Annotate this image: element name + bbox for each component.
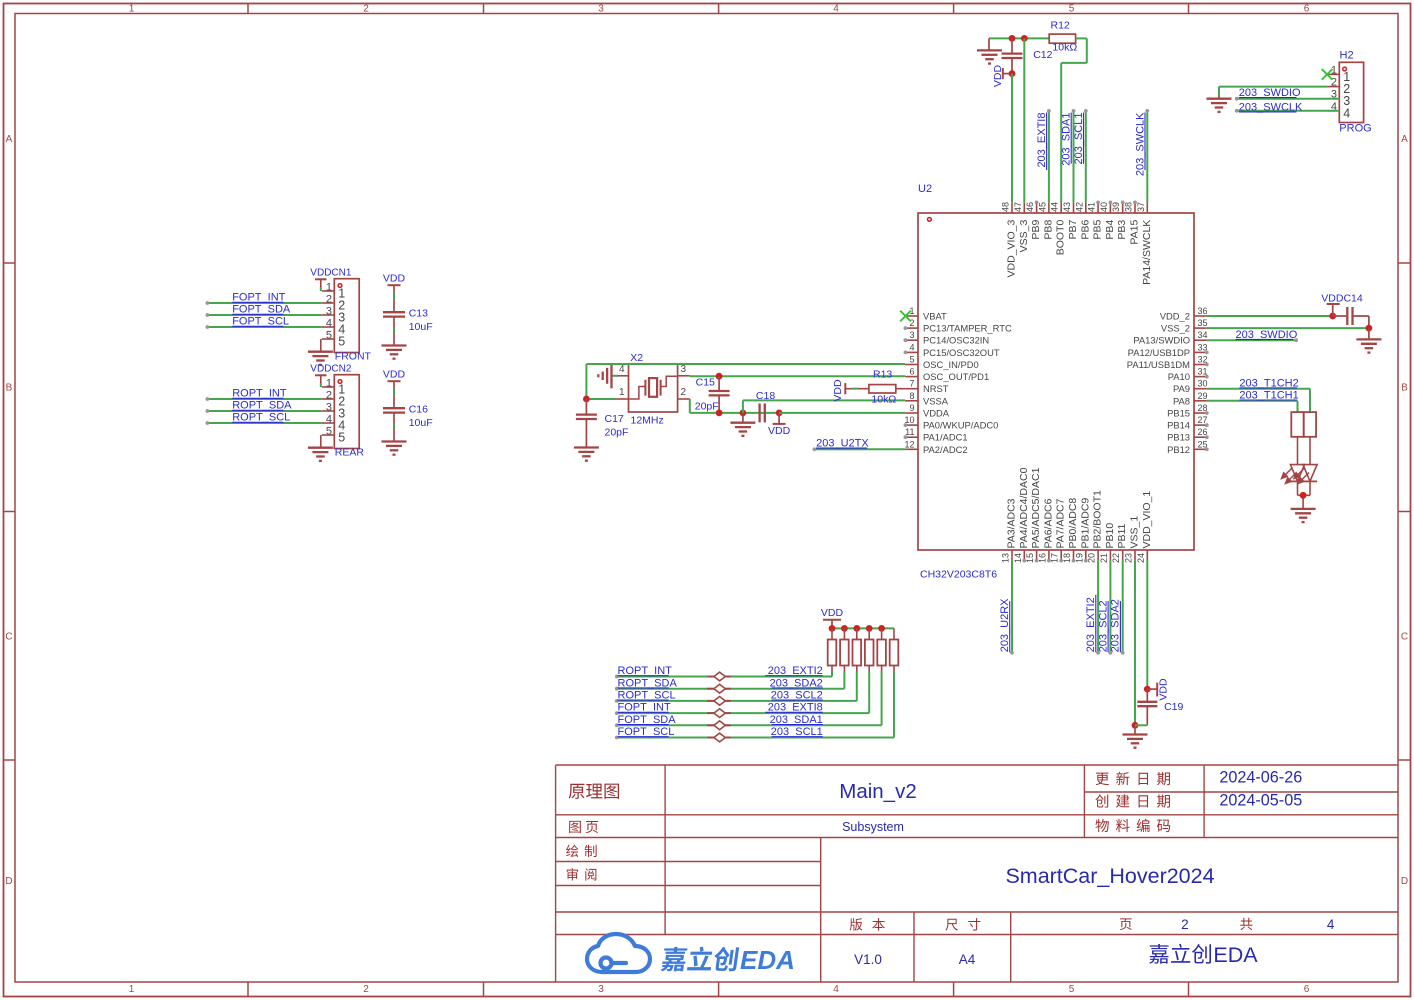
capacitor C19 [1135, 689, 1184, 725]
svg-text:6: 6 [1304, 4, 1310, 15]
svg-text:PB7: PB7 [1067, 220, 1079, 240]
svg-text:VDDA: VDDA [923, 408, 950, 419]
wire ROPT_INT [206, 397, 322, 401]
wire VDD to U2 pin48 VDD_VIO_3 [1011, 74, 1013, 203]
svg-text:OSC_OUT/PD1: OSC_OUT/PD1 [923, 371, 989, 382]
svg-text:C19: C19 [1164, 701, 1183, 713]
svg-text:2: 2 [326, 390, 332, 402]
net label 203_U2RX bottom [999, 598, 1011, 652]
svg-text:A: A [6, 134, 13, 145]
svg-text:4: 4 [833, 984, 839, 995]
power VDD above C16 [383, 368, 406, 408]
power VDD flag near C18 [768, 413, 791, 437]
svg-text:46: 46 [1025, 202, 1035, 212]
svg-text:5: 5 [1069, 984, 1075, 995]
svg-text:3: 3 [326, 306, 332, 318]
wire VSS_2 (U2 pin35) [1207, 327, 1369, 329]
svg-text:EDA: EDA [740, 945, 795, 975]
wire dashes C13 lead [393, 294, 395, 333]
net tie diamond row 2 [707, 684, 731, 693]
svg-text:PB13: PB13 [1167, 432, 1190, 443]
LED D left [1282, 437, 1305, 496]
svg-text:BOOT0: BOOT0 [1055, 220, 1067, 256]
resistor RN6 pull-up [890, 628, 899, 671]
no-connect cross H2 pin1 [1322, 69, 1333, 80]
svg-text:D: D [5, 876, 12, 887]
wire ROPT_INT to 203_EXTI2 [615, 672, 832, 679]
svg-text:VDD: VDD [832, 379, 844, 402]
net label ROPT_SDA [232, 400, 292, 412]
svg-text:NRST: NRST [923, 383, 949, 394]
power VDD flag resistor network [821, 607, 844, 628]
ground H2 [1207, 99, 1232, 112]
svg-text:REAR: REAR [335, 447, 365, 459]
svg-text:SmartCar_Hover2024: SmartCar_Hover2024 [1005, 864, 1214, 888]
svg-text:PA11/USB1DM: PA11/USB1DM [1127, 359, 1190, 370]
net label ROPT_SDA [618, 677, 678, 689]
wire FOPT_INT [206, 301, 322, 305]
svg-text:2: 2 [363, 4, 369, 15]
svg-text:43: 43 [1062, 202, 1072, 212]
connector REAR (VDDCN2) [322, 375, 365, 459]
svg-text:VDD_VIO_3: VDD_VIO_3 [1006, 220, 1018, 278]
power VDD flag VDDC14 [1321, 293, 1363, 317]
svg-text:17: 17 [1050, 553, 1060, 563]
power flag VDDCN2 [310, 364, 352, 388]
junction rail RN2 [841, 625, 848, 632]
svg-text:3: 3 [598, 984, 604, 995]
wire GND rail top [989, 37, 1049, 39]
svg-text:2: 2 [1181, 917, 1189, 932]
net label 203_SCL2 [771, 690, 823, 702]
wire OSC_IN net (X2 pin1, C17, U2 pin5) [586, 364, 905, 399]
svg-text:14: 14 [1013, 553, 1023, 563]
resistor RN5 pull-up [877, 628, 886, 671]
svg-text:C: C [1401, 632, 1408, 643]
junction LED cathodes [1300, 492, 1307, 499]
svg-text:19: 19 [1074, 553, 1084, 563]
svg-text:4: 4 [326, 318, 332, 330]
svg-text:B: B [1401, 383, 1408, 394]
capacitor C15 20pF [695, 376, 730, 413]
resistor RN4 pull-up [865, 628, 874, 671]
wire 203_U2TX to U2 pin12 [813, 447, 906, 451]
junction OSC_IN C17 [583, 396, 590, 403]
svg-text:VDD: VDD [821, 607, 844, 619]
wire net 203_U2RX at U2 bottom [1010, 560, 1014, 654]
svg-text:PA10: PA10 [1168, 371, 1190, 382]
resistor RN2 pull-up [840, 628, 849, 671]
capacitor C16 10uF [383, 403, 433, 441]
svg-text:36: 36 [1198, 306, 1208, 316]
crystal X2 12MHz [616, 352, 690, 427]
svg-text:29: 29 [1198, 391, 1208, 401]
net label 203_SCL1 [771, 726, 823, 738]
svg-text:47: 47 [1013, 202, 1023, 212]
ground under C19 [1123, 725, 1148, 747]
junction C18 left / ground [740, 410, 747, 417]
ground VDDCN2 pin5 [308, 435, 333, 461]
capacitor C13 10uF [383, 307, 433, 345]
svg-text:4: 4 [909, 342, 914, 352]
svg-text:10kΩ: 10kΩ [871, 394, 896, 406]
wire 203_T1CH1 (U2 pin29 to resistor) [1207, 401, 1298, 412]
power VDD flag near C12 [992, 64, 1012, 87]
resistor RN3 pull-up [853, 628, 862, 671]
net label 203_U2TX [816, 438, 869, 450]
svg-text:8: 8 [909, 391, 914, 401]
svg-text:X2: X2 [630, 352, 643, 364]
LED D right [1294, 437, 1317, 496]
svg-text:VDD_2: VDD_2 [1160, 311, 1190, 322]
net label 203_SWDIO right [1236, 329, 1298, 341]
ground right of C14 [1356, 328, 1381, 353]
wire dash VDDCN2 pin1 [320, 383, 322, 387]
net label 203_SDA1 [1061, 113, 1073, 166]
svg-text:PB12: PB12 [1167, 444, 1190, 455]
wire VDDA net (U2 pin9) [779, 412, 905, 414]
U2 right pins 36-25 stubs and numbers [1194, 306, 1209, 451]
svg-text:PB1/ADC9: PB1/ADC9 [1079, 498, 1091, 549]
wire VDD rail resistor network [832, 627, 894, 629]
svg-text:23: 23 [1124, 553, 1134, 563]
wire FOPT_SDA [206, 313, 322, 317]
svg-text:PA0/WKUP/ADC0: PA0/WKUP/ADC0 [923, 420, 998, 431]
net tie diamond row 1 [707, 672, 731, 681]
svg-text:PA5/ADC5/DAC1: PA5/ADC5/DAC1 [1030, 467, 1042, 548]
wire ROPT_SCL [206, 421, 322, 425]
svg-text:C18: C18 [756, 390, 775, 402]
net label 203_EXTI2 bottom [1085, 595, 1097, 653]
svg-text:PA13/SWDIO: PA13/SWDIO [1133, 335, 1190, 346]
ground top rail [977, 38, 1002, 63]
net label 203_SWDIO at H2 [1239, 87, 1301, 99]
svg-text:U2: U2 [918, 183, 932, 195]
svg-text:PC13/TAMPER_RTC: PC13/TAMPER_RTC [923, 323, 1012, 334]
resistor LED right (T1CH2) [1304, 412, 1316, 437]
svg-text:PB0/ADC8: PB0/ADC8 [1067, 498, 1079, 549]
svg-text:3: 3 [909, 330, 914, 340]
U2 bottom pins 13-24 stubs and numbers [1001, 550, 1148, 563]
svg-text:42: 42 [1074, 202, 1084, 212]
svg-text:16: 16 [1037, 553, 1047, 563]
svg-text:VSS_3: VSS_3 [1018, 220, 1030, 253]
net label 203_EXTI2 [765, 665, 823, 677]
svg-text:PA15: PA15 [1129, 220, 1141, 245]
net label ROPT_INT [618, 665, 673, 677]
svg-text:C: C [5, 632, 12, 643]
svg-text:6: 6 [909, 367, 914, 377]
svg-text:EDA: EDA [1213, 943, 1258, 967]
svg-text:20pF: 20pF [695, 400, 719, 412]
svg-text:Subsystem: Subsystem [842, 820, 904, 834]
wire ROPT_SCL to 203_SCL2 [615, 672, 857, 703]
net label 203_SCL2 bottom [1097, 600, 1109, 652]
svg-text:24: 24 [1136, 553, 1146, 563]
svg-text:13: 13 [1001, 553, 1011, 563]
junction C15 bottom [716, 410, 723, 417]
junction VSS_2 ground [1366, 325, 1373, 332]
svg-text:38: 38 [1124, 202, 1134, 212]
junction C18 right / VDD [776, 410, 783, 417]
net label FOPT_SDA [232, 304, 291, 316]
wire FOPT_SCL [206, 325, 322, 329]
power flag VDDCN1 [310, 268, 352, 292]
wire 203_SWDIO to H2 pin3 [1235, 97, 1340, 101]
svg-text:5: 5 [326, 426, 332, 438]
junction VDD-C12 [1009, 70, 1016, 77]
U2 left pins 1-12 stubs and numbers [904, 306, 919, 449]
svg-text:PB8: PB8 [1042, 220, 1054, 240]
wire net 203_SCL2 at U2 bottom [1109, 560, 1113, 654]
U2 right pin names [1127, 311, 1190, 455]
power VDD above C13 [383, 272, 406, 312]
svg-text:PB5: PB5 [1092, 220, 1104, 240]
svg-text:PB10: PB10 [1104, 523, 1116, 549]
junction rail RN1 [829, 625, 836, 632]
svg-text:C12: C12 [1033, 49, 1052, 61]
svg-text:4: 4 [619, 364, 625, 375]
net label ROPT_SCL [232, 412, 290, 424]
U2 bottom pin names [1006, 467, 1153, 548]
net label 203_SDA2 bottom [1110, 599, 1122, 652]
U2 left pin names [923, 311, 1012, 455]
net label 203_SWCLK [1134, 112, 1146, 176]
wire net 203_SCL1 to U2 [1084, 109, 1088, 203]
svg-text:Main_v2: Main_v2 [839, 780, 917, 803]
svg-text:35: 35 [1198, 318, 1208, 328]
svg-text:18: 18 [1062, 553, 1072, 563]
svg-text:34: 34 [1198, 330, 1208, 340]
svg-text:PA12/USB1DP: PA12/USB1DP [1128, 347, 1190, 358]
svg-text:PB6: PB6 [1079, 220, 1091, 240]
net label ROPT_SCL [618, 690, 676, 702]
wire VSS_1 (U2 pin23) to ground [1134, 560, 1136, 725]
ground near C18 [730, 413, 755, 436]
svg-text:41: 41 [1087, 202, 1097, 212]
svg-text:6: 6 [1304, 984, 1310, 995]
U2 top pins 48-37 stubs and numbers [1001, 201, 1148, 214]
svg-text:12MHz: 12MHz [631, 415, 664, 427]
svg-text:A4: A4 [959, 952, 976, 967]
svg-text:48: 48 [1001, 202, 1011, 212]
svg-text:PA6/ADC6: PA6/ADC6 [1042, 498, 1054, 548]
net label 203_SDA1 [770, 714, 823, 726]
junction rail RN4 [866, 625, 873, 632]
net label FOPT_INT [618, 702, 671, 714]
svg-text:39: 39 [1111, 202, 1121, 212]
ground under C13 [382, 346, 407, 359]
wire VSS_3 to U2 pin47 [1023, 38, 1025, 202]
wire net 203_SWCLK to U2 [1145, 109, 1149, 203]
junction VDD_VIO_1 C19 [1144, 686, 1151, 693]
wire FOPT_SCL to 203_SCL1 [615, 672, 894, 740]
svg-text:PB9: PB9 [1030, 220, 1042, 240]
svg-text:PB11: PB11 [1116, 523, 1128, 548]
svg-text:PA2/ADC2: PA2/ADC2 [923, 444, 968, 455]
svg-text:3: 3 [326, 402, 332, 414]
net label 203_SDA2 [770, 677, 823, 689]
svg-text:C13: C13 [409, 307, 428, 319]
svg-text:37: 37 [1136, 202, 1146, 212]
wire net 203_EXTI2 at U2 bottom [1096, 560, 1100, 654]
wire X2 pin2 to ground line [690, 399, 779, 413]
svg-text:45: 45 [1037, 202, 1047, 212]
wire OSC_OUT net (X2 pin3 to U2 pin6) [690, 375, 906, 377]
wire R12 to U2 pin44 BOOT0 [1061, 38, 1087, 202]
net label FOPT_SCL [618, 726, 675, 738]
wire 203_T1CH2 (U2 pin30 to resistor) [1207, 389, 1310, 412]
svg-text:D: D [1401, 876, 1408, 887]
net label 203_T1CH2 [1239, 377, 1298, 389]
svg-text:12: 12 [904, 439, 914, 449]
junction rail-VSS_3 [1021, 35, 1028, 42]
resistor RN1 pull-up [828, 628, 837, 671]
svg-text:CH32V203C8T6: CH32V203C8T6 [920, 569, 997, 581]
net tie diamond row 6 [707, 733, 731, 742]
svg-text:4: 4 [326, 414, 332, 426]
svg-text:4: 4 [833, 4, 839, 15]
svg-text:V1.0: V1.0 [854, 952, 882, 967]
net label 203_EXTI8 [765, 702, 823, 714]
wire FOPT_INT to 203_EXTI8 [615, 672, 869, 715]
svg-text:15: 15 [1025, 553, 1035, 563]
svg-text:VDD: VDD [383, 272, 406, 284]
svg-text:PA9: PA9 [1173, 383, 1190, 394]
wire VSSA net (U2 pin8) [743, 400, 905, 413]
svg-text:R12: R12 [1051, 20, 1070, 32]
svg-text:VBAT: VBAT [923, 311, 947, 322]
svg-text:44: 44 [1050, 202, 1060, 212]
svg-text:PA8: PA8 [1173, 395, 1190, 406]
connector FRONT (VDDCN1) [322, 279, 372, 363]
svg-text:A: A [1401, 134, 1408, 145]
svg-text:VDDC14: VDDC14 [1321, 293, 1363, 305]
svg-text:B: B [6, 383, 13, 394]
svg-text:7: 7 [909, 379, 914, 389]
wire ROPT_SDA [206, 409, 322, 413]
svg-text:30: 30 [1198, 379, 1208, 389]
net label 203_SWCLK at H2 [1239, 101, 1303, 113]
svg-text:PB15: PB15 [1167, 408, 1190, 419]
svg-text:22: 22 [1111, 553, 1121, 563]
ground under C17 [574, 448, 599, 461]
svg-text:5: 5 [909, 355, 914, 365]
svg-text:PA14/SWCLK: PA14/SWCLK [1141, 220, 1153, 285]
svg-text:VSS_2: VSS_2 [1161, 323, 1190, 334]
wire VDD_VIO_1 (U2 pin24) [1146, 560, 1148, 689]
no-connect cross U2 pin1 VBAT [900, 311, 911, 322]
net label 203_SCL1 [1073, 113, 1085, 165]
capacitor C17 20pF [576, 399, 629, 447]
junction OSC_OUT C15 [716, 373, 723, 380]
svg-text:2024-06-26: 2024-06-26 [1219, 769, 1302, 787]
power VDD flag near C19 [1147, 678, 1169, 701]
svg-text:PROG: PROG [1339, 123, 1371, 135]
ground VDDCN1 pin5 [308, 339, 333, 365]
svg-text:1: 1 [129, 4, 135, 15]
ground at X2 pin4 [598, 363, 618, 388]
wire LED cathodes join [1298, 495, 1311, 509]
svg-text:VSSA: VSSA [923, 395, 949, 406]
svg-text:C17: C17 [605, 413, 624, 425]
svg-text:4: 4 [1327, 917, 1335, 932]
net label 203_EXTI8 [1036, 113, 1048, 171]
wire NRST (R13 to U2 pin7) [896, 388, 906, 390]
net tie diamond row 5 [707, 721, 731, 730]
svg-text:40: 40 [1099, 202, 1109, 212]
wire H2 pin2 to ground [1219, 87, 1327, 99]
junction rail-C12 [1009, 35, 1016, 42]
resistor LED left (T1CH1) [1291, 412, 1303, 437]
resistor R13 10k [869, 369, 896, 406]
svg-text:10uF: 10uF [409, 321, 433, 333]
svg-text:PB4: PB4 [1104, 220, 1116, 240]
svg-text:R13: R13 [873, 369, 892, 381]
svg-text:1: 1 [326, 282, 332, 294]
svg-text:PB3: PB3 [1116, 220, 1128, 240]
resistor R12 10k [1049, 20, 1077, 54]
svg-text:VDD: VDD [992, 64, 1004, 87]
svg-text:5: 5 [338, 431, 345, 445]
wire net 203_SDA1 to U2 [1072, 109, 1076, 203]
svg-text:PC15/OSC32OUT: PC15/OSC32OUT [923, 347, 1000, 358]
svg-text:VDDCN1: VDDCN1 [310, 268, 352, 279]
net tie diamond row 3 [707, 697, 731, 706]
svg-text:2: 2 [326, 294, 332, 306]
svg-text:OSC_IN/PD0: OSC_IN/PD0 [923, 359, 979, 370]
wire dashes C16 lead [393, 390, 395, 429]
svg-text:VDD: VDD [768, 425, 791, 437]
svg-text:9: 9 [909, 403, 914, 413]
svg-text:VDDCN2: VDDCN2 [310, 364, 352, 375]
svg-text:2: 2 [363, 984, 369, 995]
net label 203_T1CH1 [1239, 389, 1298, 401]
capacitor C12 [1002, 38, 1053, 73]
wire 203_SWCLK to H2 pin4 [1235, 109, 1340, 113]
wire net 203_EXTI8 to U2 [1047, 109, 1051, 203]
svg-text:4: 4 [1343, 106, 1350, 120]
ground under C16 [382, 442, 407, 455]
svg-text:C16: C16 [409, 403, 428, 415]
svg-text:VSS_1: VSS_1 [1129, 516, 1141, 549]
net label FOPT_SDA [618, 714, 677, 726]
net label FOPT_SCL [232, 316, 289, 328]
power VDD flag at R13 [832, 379, 869, 402]
svg-text:PB2/BOOT1: PB2/BOOT1 [1092, 490, 1104, 549]
svg-text:10kΩ: 10kΩ [1052, 42, 1077, 54]
svg-text:PA1/ADC1: PA1/ADC1 [923, 432, 968, 443]
wire 203_SWDIO to U2 pin34 [1207, 338, 1298, 342]
svg-text:FRONT: FRONT [335, 351, 372, 363]
svg-text:VDD: VDD [1158, 678, 1170, 701]
svg-text:C15: C15 [696, 376, 715, 388]
svg-text:H2: H2 [1340, 50, 1354, 62]
net tie diamond row 4 [707, 709, 731, 718]
svg-text:PA7/ADC7: PA7/ADC7 [1055, 498, 1067, 548]
wire FOPT_SDA to 203_SDA1 [615, 672, 882, 728]
svg-text:5: 5 [338, 335, 345, 349]
svg-text:1: 1 [326, 378, 332, 390]
svg-text:5: 5 [1069, 4, 1075, 15]
net label ROPT_INT [232, 388, 287, 400]
svg-text:20: 20 [1087, 553, 1097, 563]
svg-text:PB14: PB14 [1167, 420, 1190, 431]
svg-text:PA4/ADC4/DAC0: PA4/ADC4/DAC0 [1018, 467, 1030, 548]
connector H2 PROG [1327, 50, 1372, 135]
wire dash VDDCN1 pin1 [320, 287, 322, 291]
IC U2 CH32V203C8T6 body [918, 183, 1194, 581]
